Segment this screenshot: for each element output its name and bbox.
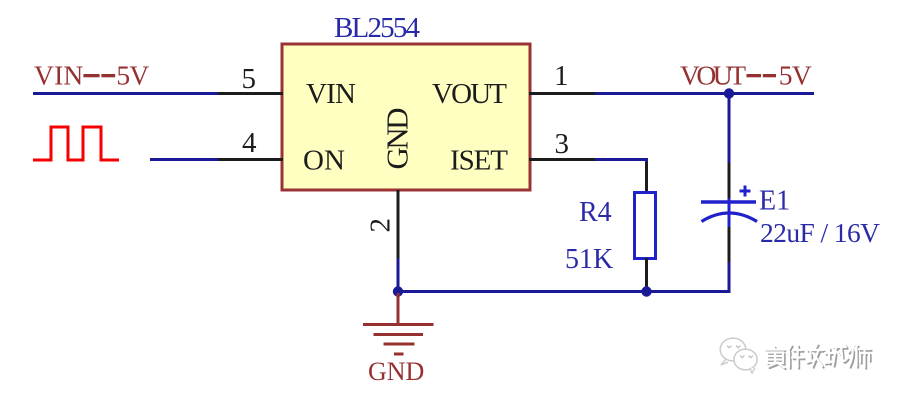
svg-text:5V: 5V <box>779 60 812 91</box>
square wave input symbol <box>33 127 119 160</box>
svg-text:ISET: ISET <box>450 145 508 177</box>
ground symbol bar 4 <box>394 353 404 356</box>
node junction VOUT <box>724 88 734 98</box>
svg-text:51K: 51K <box>565 244 613 275</box>
capacitor E1 plus plate <box>701 200 756 204</box>
pin 4 lead <box>217 158 283 161</box>
resistor R4 body <box>635 193 656 259</box>
svg-text:VOUT: VOUT <box>680 60 746 91</box>
wire VOUT down to capacitor <box>728 94 731 166</box>
svg-text:1: 1 <box>554 60 569 92</box>
svg-text:VIN: VIN <box>306 78 356 110</box>
capacitor E1 bottom lead <box>728 227 731 264</box>
ground symbol bar 1 <box>363 323 434 326</box>
node junction ground net <box>393 286 403 296</box>
svg-text:22uF / 16V: 22uF / 16V <box>760 217 880 248</box>
wire ON input <box>150 158 218 161</box>
IC U1 BL2554 body <box>282 44 530 190</box>
pin 2 lead <box>397 190 400 260</box>
capacitor E1 internal stem <box>728 198 731 228</box>
wire ISET to R4 <box>595 160 647 167</box>
svg-text:GND: GND <box>368 357 424 386</box>
svg-text:VIN: VIN <box>34 60 83 91</box>
svg-text:5V: 5V <box>116 60 149 91</box>
wire VOUT output <box>595 92 814 95</box>
wire capacitor to ground net <box>398 262 729 292</box>
ground symbol bar 3 <box>384 343 415 346</box>
pin 5 lead <box>217 92 283 95</box>
ground symbol bar 2 <box>374 333 424 336</box>
svg-text:VOUT: VOUT <box>432 78 507 110</box>
capacitor E1 top lead <box>728 163 731 199</box>
capacitor E1 polarity plus sign <box>740 186 751 197</box>
svg-text:GND: GND <box>380 108 415 170</box>
node junction R4/ground net <box>641 286 651 296</box>
pin 1 lead <box>529 92 596 95</box>
svg-text:3: 3 <box>555 128 570 160</box>
pin 3 lead <box>529 158 595 161</box>
resistor R4 bottom lead <box>645 258 648 290</box>
wire VIN input <box>33 92 218 95</box>
svg-text:5: 5 <box>242 63 257 95</box>
svg-text:2: 2 <box>365 218 397 233</box>
svg-text:E1: E1 <box>759 186 790 217</box>
svg-text:4: 4 <box>242 127 257 159</box>
ground symbol stub <box>397 293 400 324</box>
svg-text:BL2554: BL2554 <box>334 12 421 44</box>
capacitor E1 curved plate <box>702 213 758 222</box>
svg-text:R4: R4 <box>579 197 612 228</box>
wire pin2 to ground net <box>397 258 400 292</box>
resistor R4 top lead <box>645 162 648 193</box>
svg-text:ON: ON <box>303 145 345 177</box>
